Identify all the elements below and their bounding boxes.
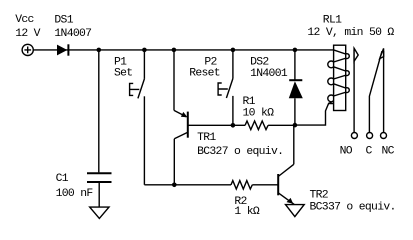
- svg-text:1 kΩ: 1 kΩ: [234, 206, 259, 218]
- svg-text:TR1: TR1: [197, 132, 216, 144]
- wire node to relay coil: [295, 104, 334, 126]
- svg-text:DS2: DS2: [250, 56, 269, 68]
- node: rail junction to P1: [142, 48, 147, 53]
- wire TR1 base lead: [188, 124, 233, 126]
- node: base junction: [231, 123, 236, 128]
- node: collector junction: [293, 123, 298, 128]
- svg-text:C1: C1: [56, 173, 69, 185]
- svg-text:Vcc: Vcc: [15, 14, 33, 26]
- transistor TR1: [174, 50, 188, 185]
- svg-text:1N4007: 1N4007: [54, 28, 91, 40]
- relay RL1 coil winding: [328, 50, 349, 104]
- wire base node to R1: [233, 124, 245, 126]
- pushbutton P2: [218, 50, 233, 98]
- resistor R1: [245, 121, 268, 130]
- svg-text:10 kΩ: 10 kΩ: [243, 107, 275, 119]
- ground (TR2 emitter): [286, 205, 305, 217]
- supply terminal Vcc: [22, 44, 33, 55]
- relay contact NO: [351, 48, 358, 138]
- svg-text:TR2: TR2: [310, 190, 329, 202]
- wire C1 branch down: [98, 50, 100, 172]
- relay contact C (common arm): [367, 51, 382, 138]
- pushbutton P1: [130, 50, 145, 99]
- wire P2 bottom lead: [232, 96, 234, 125]
- svg-text:BC337 o equiv.: BC337 o equiv.: [310, 202, 396, 214]
- wire R2 to TR2 base: [252, 184, 278, 186]
- ground (C1): [90, 207, 109, 218]
- capacitor C1: [87, 173, 112, 182]
- transistor TR2: [278, 164, 294, 204]
- node: rail junction to DS2: [293, 48, 298, 53]
- node: rail junction to TR1 emitter: [172, 48, 177, 53]
- node: rail junction to P2: [231, 48, 236, 53]
- diode DS2: [289, 50, 303, 125]
- svg-text:DS1: DS1: [54, 14, 73, 26]
- diode DS1: [57, 44, 68, 55]
- svg-text:BC327 o equiv.: BC327 o equiv.: [197, 146, 283, 158]
- node: rail junction to C1: [97, 48, 102, 53]
- svg-text:RL1: RL1: [323, 14, 342, 26]
- wire P1 bottom lead: [143, 96, 145, 185]
- svg-text:100 nF: 100 nF: [56, 188, 94, 200]
- svg-text:C: C: [366, 146, 373, 158]
- wire bottom (P1/TR1 collector to R2): [144, 184, 231, 186]
- svg-text:R1: R1: [243, 96, 256, 108]
- resistor R2: [231, 181, 252, 189]
- svg-text:12 V: 12 V: [15, 28, 40, 40]
- svg-text:12 V, min 50 Ω: 12 V, min 50 Ω: [307, 27, 394, 39]
- svg-text:Reset: Reset: [189, 68, 220, 80]
- svg-text:Set: Set: [114, 68, 132, 80]
- svg-text:1N4001: 1N4001: [250, 68, 288, 80]
- svg-text:NC: NC: [382, 146, 395, 158]
- node: TR1 collector junction: [172, 183, 177, 188]
- svg-text:NO: NO: [340, 146, 353, 158]
- wire C1 to ground: [98, 183, 100, 207]
- relay RL1 coil core: [334, 45, 346, 110]
- relay contact NC: [380, 48, 387, 138]
- wire TR2 collector vertical: [293, 125, 295, 164]
- wire R1 to node: [268, 124, 295, 126]
- wire top rail: [33, 49, 333, 51]
